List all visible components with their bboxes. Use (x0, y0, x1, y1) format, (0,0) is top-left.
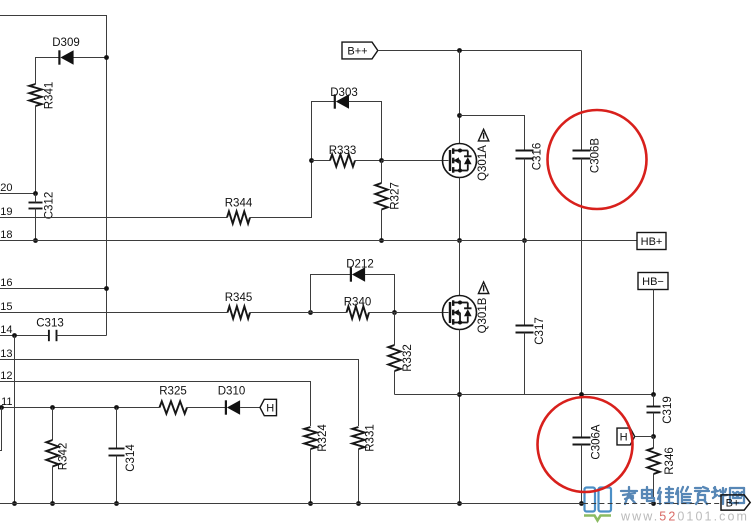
node R333 right (379, 158, 384, 163)
svg-text:R333: R333 (329, 145, 357, 157)
label C319 (662, 396, 674, 424)
svg-text:13: 13 (0, 348, 12, 360)
node pin16-bus (104, 286, 109, 291)
label C313 (36, 318, 64, 330)
node junction D309-bus (104, 55, 109, 60)
wire C306B down bus (581, 159, 583, 438)
node C306A-bottom (579, 501, 584, 506)
wire C306A bottom lead (581, 445, 583, 504)
label R342 (58, 443, 70, 471)
red highlight circle C306B (548, 110, 647, 209)
wire R332 leads (394, 313, 396, 395)
resistor R344 (227, 211, 250, 223)
node C319-R346-H (651, 434, 656, 439)
wire gate Q301B (395, 312, 449, 314)
label C316 (532, 143, 544, 171)
wire R324 bottom lead (310, 449, 312, 504)
svg-text:16: 16 (0, 277, 12, 289)
wire R346 leads (653, 437, 655, 504)
wire Q301A source (459, 178, 461, 241)
wire R333 right lead (355, 160, 382, 162)
svg-text:D303: D303 (330, 87, 358, 99)
label C312 (44, 192, 56, 220)
wire D212 right leg (365, 275, 395, 313)
pin 16 wire (0, 288, 107, 290)
resistor R346 (647, 448, 659, 474)
pin 18 wire to HB+ (0, 240, 637, 242)
capacitor C314 (109, 449, 125, 456)
svg-text:B++: B++ (347, 45, 367, 57)
svg-text:C312: C312 (44, 192, 56, 220)
node R331-bottom (356, 501, 361, 506)
wire C317 bottom lead (524, 333, 526, 395)
pin 12 wire (0, 382, 311, 427)
node Q301B source-bottom (457, 501, 462, 506)
label R324 (317, 424, 329, 452)
node C316-pin18 (522, 238, 527, 243)
watermark logo (584, 488, 611, 521)
label R344 (225, 198, 253, 210)
tag B+ (721, 495, 750, 510)
node pin20-C312 (33, 191, 38, 196)
svg-text:HB−: HB− (642, 276, 664, 288)
svg-text:R345: R345 (225, 292, 253, 304)
svg-text:R346: R346 (664, 447, 676, 475)
svg-text:D309: D309 (52, 37, 80, 49)
wire R342 top lead (52, 408, 54, 441)
svg-text:www.520101.com: www.520101.com (620, 510, 749, 524)
svg-text:C319: C319 (662, 396, 674, 424)
node C312-pin18 (33, 238, 38, 243)
port HB- (638, 273, 668, 290)
warning triangle Q301B (478, 282, 488, 294)
node pin11-R342 (50, 405, 55, 410)
label R325 (159, 386, 187, 398)
node pin14 bus bottom (12, 501, 17, 506)
svg-text:R327: R327 (390, 182, 402, 210)
wire bottom rail solid (0, 503, 583, 505)
label R331 (365, 424, 377, 452)
capacitor C317 (516, 326, 534, 333)
diode D310 (226, 400, 240, 414)
resistor R345 (228, 306, 251, 318)
label pin 16 (0, 277, 12, 289)
node drain-C316 branch (457, 113, 462, 118)
wire R340 right lead (369, 312, 395, 314)
svg-text:H: H (266, 402, 274, 414)
pin 20 wire (0, 193, 36, 195)
label pin 13 (0, 348, 12, 360)
warning triangle Q301A (478, 129, 488, 141)
wire source line (395, 394, 654, 396)
wire C312 leads (35, 194, 37, 241)
label Q301B (477, 297, 489, 333)
wire R325 to D310 (187, 407, 226, 409)
node srcline-C306A (579, 392, 584, 397)
wire bottom rail dashed under watermark (583, 503, 721, 505)
label R346 (664, 447, 676, 475)
label pin 14 (0, 324, 12, 336)
svg-text:R324: R324 (317, 424, 329, 452)
resistor R331 (352, 427, 364, 449)
wire R342 bottom lead (52, 467, 54, 504)
capacitor C306A (573, 438, 591, 445)
pin 11 wire (0, 407, 160, 409)
pin 13 wire (0, 360, 359, 427)
svg-text:R332: R332 (402, 344, 414, 372)
svg-text:12: 12 (0, 370, 12, 382)
wire C314 bottom lead (116, 456, 118, 504)
label C317 (534, 317, 546, 345)
wire Q301B drain (459, 241, 461, 296)
watermark chinese text (621, 487, 744, 504)
svg-text:HB+: HB+ (641, 236, 663, 248)
node pin11 left stub (0, 405, 4, 410)
label D303 (330, 87, 358, 99)
svg-text:R331: R331 (365, 424, 377, 452)
wire C317 top lead (524, 241, 526, 326)
pin 14 wire (0, 335, 49, 337)
label D310 (218, 386, 246, 398)
capacitor C319 (647, 407, 661, 413)
node Q301B source-srcline (457, 392, 462, 397)
wire gate Q301A (382, 160, 449, 162)
label pin 15 (0, 301, 12, 313)
tag B++ (342, 42, 378, 59)
svg-text:18: 18 (0, 229, 12, 241)
label pin 11 (1, 396, 12, 408)
capacitor C313 (49, 330, 57, 341)
wire Q301A drain (459, 51, 461, 144)
label pin 18 (0, 229, 12, 241)
svg-text:C306B: C306B (590, 138, 602, 173)
node R340 right (392, 310, 397, 315)
node C314-bottom (114, 501, 119, 506)
svg-text:H: H (620, 432, 628, 444)
node R346-bottom (651, 501, 656, 506)
node pin14 junction (12, 333, 17, 338)
svg-text:C313: C313 (36, 318, 64, 330)
svg-text:R342: R342 (58, 443, 70, 471)
wire pin14 down bus (14, 336, 16, 504)
node R324-bottom (308, 501, 313, 506)
svg-text:D212: D212 (346, 259, 374, 271)
svg-text:C316: C316 (532, 143, 544, 171)
label R327 (390, 182, 402, 210)
label pin 19 (0, 206, 12, 218)
diode D309 (59, 50, 73, 64)
svg-text:B+: B+ (726, 497, 740, 509)
label C306A (591, 424, 603, 459)
svg-text:20: 20 (0, 182, 12, 194)
node R342-bottom (50, 501, 55, 506)
resistor R340 (347, 306, 370, 318)
resistor R332 (388, 345, 400, 371)
svg-text:R340: R340 (344, 297, 372, 309)
red highlight circle C306A (538, 397, 633, 492)
node pin11-C314 (114, 405, 119, 410)
wire D310 to H tag (240, 407, 260, 409)
svg-text:C306A: C306A (591, 424, 603, 459)
wire C319 bottom lead (653, 413, 655, 437)
label R340 (344, 297, 372, 309)
wire branch to C316 (460, 116, 525, 151)
pin 19 wire (0, 217, 227, 219)
capacitor C312 (29, 203, 43, 209)
capacitor C316 (516, 151, 534, 159)
wire C316 bottom lead (524, 159, 526, 241)
label pin 12 (0, 370, 12, 382)
svg-text:R341: R341 (44, 82, 56, 110)
transistor Q301A (443, 144, 477, 178)
resistor R333 (330, 154, 355, 166)
svg-text:Q301A: Q301A (477, 145, 489, 181)
port HB+ (637, 233, 666, 250)
label D309 (52, 37, 80, 49)
node R327-pin18 (379, 238, 384, 243)
svg-text:C317: C317 (534, 317, 546, 345)
tag H (heater) right (617, 428, 635, 445)
wire R333 left lead (312, 160, 331, 162)
watermark url (620, 510, 749, 524)
svg-text:19: 19 (0, 206, 12, 218)
label R345 (225, 292, 253, 304)
resistor R325 (160, 401, 187, 413)
wire R331 bottom lead (358, 449, 360, 504)
wire C313 right lead (57, 335, 107, 337)
svg-text:14: 14 (0, 324, 12, 336)
label R332 (402, 344, 414, 372)
resistor R324 (304, 427, 316, 449)
label C306B (590, 138, 602, 173)
wire B++ to C306B (581, 51, 583, 151)
label Q301A (477, 145, 489, 181)
svg-text:Q301B: Q301B (477, 297, 489, 333)
wire R327 leads (381, 161, 383, 241)
wire R341 bottom lead (35, 106, 37, 194)
wire D309 left lead and R341 top lead (36, 58, 107, 85)
wire D303 right lead (349, 102, 382, 161)
pin 15 wire (0, 312, 228, 314)
wire C314 top lead (116, 408, 118, 449)
resistor R341 (29, 84, 41, 106)
label R341 (44, 82, 56, 110)
wire left stub down (0, 408, 2, 451)
label R333 (329, 145, 357, 157)
wire B++ rail (378, 50, 582, 52)
node HB- line C319 (651, 392, 656, 397)
svg-text:D310: D310 (218, 386, 246, 398)
label C314 (125, 444, 137, 472)
wire Q301B source (459, 330, 461, 504)
diode D212 (351, 267, 365, 281)
label pin 20 (0, 182, 12, 194)
svg-text:C314: C314 (125, 444, 137, 472)
node D212 left (308, 310, 313, 315)
label D212 (346, 259, 374, 271)
resistor R327 (375, 183, 387, 210)
svg-text:R325: R325 (159, 386, 187, 398)
node B++ drain branch (457, 48, 462, 53)
diode D303 (335, 94, 349, 108)
wire D212 left leg (311, 275, 351, 313)
wire R345 to R340 (250, 312, 347, 314)
resistor R342 (46, 440, 58, 467)
node R333 left (309, 158, 314, 163)
tag H (heater) left (260, 399, 277, 415)
wire H tag to node (635, 436, 654, 438)
wire R344 to D303 bus (250, 102, 335, 218)
capacitor C306B (573, 151, 591, 159)
svg-text:R344: R344 (225, 198, 253, 210)
wire HB- down (653, 290, 655, 395)
node Q301A source-pin18 (457, 238, 462, 243)
svg-text:15: 15 (0, 301, 12, 313)
transistor Q301B (443, 296, 477, 330)
wire top-left corner to vertical bus (0, 16, 107, 336)
wire C319 top lead (653, 395, 655, 407)
